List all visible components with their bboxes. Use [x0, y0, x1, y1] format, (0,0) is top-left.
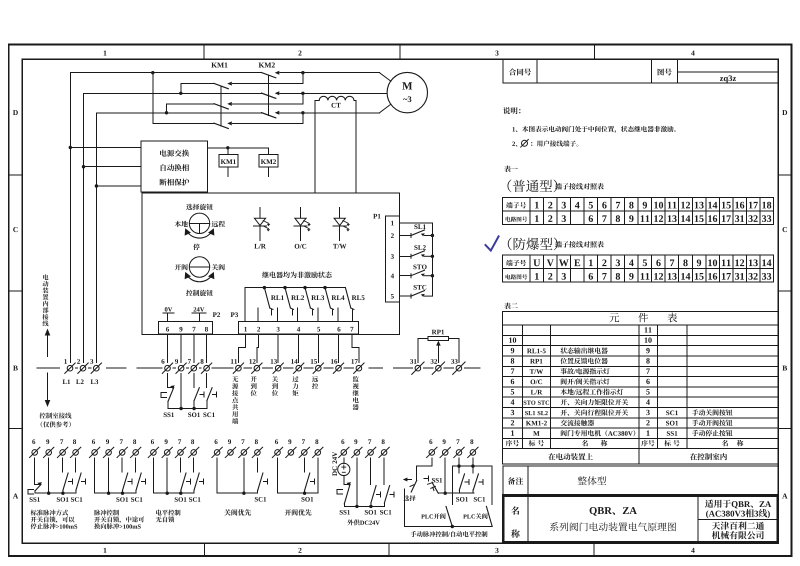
wire motor phase U: [280, 73, 391, 82]
remark box: [503, 466, 779, 495]
terminal 11: [231, 359, 244, 373]
wire branch L2 to KM1 row2: [181, 84, 214, 94]
title block: [503, 496, 778, 543]
heading explosion-proof type: [508, 238, 604, 251]
terminal 16: [331, 359, 344, 373]
relay pin stub wires to P3: [258, 308, 338, 321]
wire P1 pin1 to limit bus: [399, 222, 432, 224]
wire motor phase V: [280, 92, 387, 94]
wire P3 pin3 to terminal 13: [277, 334, 279, 363]
indicator LED T/W (trouble/power): [333, 208, 350, 249]
example 6 open button SO1: [365, 458, 381, 515]
example 7 left rail: [451, 466, 453, 505]
checkmark (blue): [486, 236, 499, 250]
example 3 open button SO1: [175, 458, 191, 502]
example 7 open button SO1: [456, 458, 469, 502]
wire P2 pin9 to terminal 9: [180, 334, 182, 363]
example 7 right rail: [491, 466, 493, 505]
heading normal type: [507, 180, 603, 193]
example 7 wire rail top: [452, 464, 492, 467]
wire P3 pin2 to terminal 12: [257, 334, 259, 363]
terminal 15: [311, 359, 324, 373]
wire P3 pin6 to terminal 16: [338, 334, 340, 363]
wire P2 pin6 to terminal 6: [167, 334, 169, 363]
contactor KM2 main contacts (3 poles): [259, 63, 280, 118]
terminal 9: [175, 359, 186, 373]
limit switch SL1 (open travel): [399, 224, 432, 237]
example 1 wire terminal 9: [48, 458, 50, 493]
terminal 3 (L3): [90, 359, 101, 373]
contactor coil KM2: [259, 154, 278, 176]
labels L1 L2 L3: [63, 379, 99, 384]
label close position (vertical): [272, 376, 278, 396]
contract number / drawing number table: [503, 59, 779, 83]
PLC close contact: [463, 506, 492, 526]
example 3 common wire: [153, 492, 194, 495]
label open position (vertical): [251, 376, 257, 396]
arrow up (internal wiring): [45, 329, 51, 357]
wire P3 pin7 to terminal 17: [352, 334, 359, 363]
torque switch STC (close): [399, 285, 432, 298]
relay contact RL3: [305, 288, 324, 315]
example 4 wire terminal 6: [216, 458, 218, 493]
terminal cross-reference table (normal type): [502, 198, 773, 225]
terminal 33: [451, 359, 465, 374]
label table 1: [504, 166, 518, 173]
notes text: [503, 107, 676, 147]
power exchange / auto phase / phase-loss protection module: [70, 141, 207, 192]
example 4 caption: [224, 509, 251, 515]
terminal 1 (L1): [64, 359, 75, 373]
selector knob (local/remote): [175, 204, 225, 250]
relay contact RL4: [325, 288, 344, 315]
label control room wiring: [40, 413, 72, 428]
potentiometer RP1: [418, 330, 459, 363]
example 2 close button SC1: [131, 458, 146, 502]
button common wire: [168, 407, 207, 410]
example 6 close button SC1: [380, 458, 394, 515]
label passive contact common (vertical): [232, 376, 238, 424]
example 6 wire terminal 9: [356, 458, 358, 507]
label 24V: [192, 307, 206, 321]
limit switch common bus wire: [431, 223, 434, 296]
example 1 stop button SS1: [28, 458, 42, 502]
example group 6 terminals 6 9 7 8: [339, 439, 390, 457]
terminal 17: [351, 359, 364, 373]
wire KM1 row2 to motor node U: [233, 71, 305, 84]
wire L1 phase from terminal 1 to KM contacts: [69, 71, 262, 363]
wire P2 pin8 to terminal 8: [206, 334, 208, 363]
wire P3 pin1 to terminal 11: [238, 334, 245, 363]
torque switch STO (open): [399, 265, 432, 278]
example 2 caption: [94, 510, 144, 530]
component table 元件表: [502, 312, 778, 465]
example 2 open button SO1: [116, 458, 132, 502]
example 2 wire terminal 6: [94, 458, 96, 493]
example 1 open button SO1: [57, 458, 73, 502]
label actuator internal wiring (vertical): [43, 274, 49, 326]
label remote control (vertical): [312, 376, 318, 389]
example 4 common wire: [217, 492, 258, 495]
terminal 6: [161, 359, 172, 373]
example 7 close button SC1: [473, 458, 485, 502]
label monitor relay (vertical): [353, 376, 359, 410]
example group 3 terminals 6 9 7 8: [148, 439, 199, 457]
indicator LED L/R (local/remote): [253, 208, 270, 249]
example 5 wire terminal 6: [277, 458, 279, 493]
example 3 caption: [156, 510, 181, 523]
current transformer CT: [315, 96, 356, 193]
example 5 common wire: [278, 492, 318, 495]
label DC 24V (rotated): [332, 452, 337, 476]
example 6 caption: [347, 519, 379, 525]
relay contact RL1: [264, 288, 283, 315]
label table 2: [504, 303, 518, 310]
terminal 12: [249, 359, 262, 373]
selector switch (manual/auto): [403, 476, 429, 526]
pushbutton SC1 (close, NO): [203, 374, 216, 417]
relay output bus wire: [245, 286, 345, 321]
label 0V: [163, 307, 174, 321]
relay contact RL5: [345, 288, 364, 322]
example 5 wire terminal 8: [317, 458, 319, 493]
wire L3 phase from terminal 3 to KM contacts: [95, 111, 262, 363]
wire L2 phase from terminal 2 to KM contacts: [82, 92, 262, 363]
terminal 32: [431, 359, 445, 374]
example 7 manual bus: [438, 492, 474, 495]
example 1 close button SC1: [71, 458, 86, 502]
example 7 stop button SS1: [428, 478, 443, 493]
example group 4 terminals 6 9 7 8: [212, 439, 263, 457]
wire P3 pin4 to terminal 14: [298, 334, 300, 363]
terminal 14: [291, 359, 304, 373]
example group 5 terminals 6 9 7 8: [272, 439, 323, 457]
note: relays shown non-energized: [262, 272, 332, 279]
example 1 caption: [31, 510, 78, 530]
terminal 2 (L2): [77, 359, 88, 373]
example group 1 terminals 6 9 7 8: [30, 439, 81, 457]
example group 7 terminals 6 9 7 8: [427, 439, 479, 457]
wire protection module to contactor coils: [208, 146, 269, 154]
connector P1: [373, 214, 399, 302]
example 4 wire terminal 7: [243, 458, 245, 493]
example 3 close button SC1: [189, 458, 204, 502]
example 3 wire terminal 9: [166, 458, 168, 493]
control unit enclosure: [142, 193, 400, 335]
example 4 close button SC1: [255, 458, 268, 502]
connector P2: [158, 312, 220, 333]
terminal 31: [410, 359, 424, 374]
wire P2 pin7 to terminal 7: [193, 334, 195, 363]
terminal 8: [201, 359, 212, 373]
terminal cross-reference table (explosion-proof): [502, 255, 773, 282]
arrow down (control room wiring): [45, 373, 51, 407]
example 7 caption: [410, 531, 487, 537]
limit switch SL2 (close travel): [399, 245, 432, 258]
contactor KM1 main contacts (3 poles): [211, 63, 231, 129]
example 5 caption: [285, 509, 312, 515]
terminal 13: [271, 359, 284, 373]
indicator LED O/C (open/close): [294, 208, 311, 249]
control knob (open/close): [175, 257, 225, 296]
connector P3: [231, 312, 359, 333]
example 7 wire terminal 9: [444, 458, 446, 493]
wire KM1 row4 to motor node V: [233, 92, 305, 104]
wire branch L1 to KM1 row6: [153, 73, 214, 124]
example 6 stop button SS1: [337, 482, 351, 514]
wire P3 pin5 to terminal 15: [317, 334, 319, 363]
relay contact RL2: [285, 288, 304, 315]
battery source DC24V: [338, 458, 350, 485]
example 1 common wire: [35, 492, 76, 495]
example 7 wire terminal 6 to selector: [417, 458, 432, 481]
example 6 common wire: [344, 505, 384, 508]
wire branch L3 to KM1 row4: [167, 104, 215, 113]
pushbutton SS1 (stop, NC): [161, 374, 175, 417]
example 5 open button SO1: [301, 458, 314, 502]
PLC open contact: [421, 506, 452, 526]
example 3 wire terminal 6: [152, 458, 154, 493]
example group 2 terminals 6 9 7 8: [89, 439, 140, 457]
wire terminal 9 to button common: [180, 374, 182, 409]
terminal 7: [188, 359, 199, 373]
motor M ~3: [387, 72, 427, 112]
wire motor phase W: [280, 104, 391, 113]
contactor coil KM1: [219, 154, 238, 176]
example 2 common wire: [95, 492, 136, 495]
pushbutton SO1 (open, NO): [188, 374, 204, 417]
wire KM1 row6 to motor node W: [233, 111, 305, 123]
example 7 bottom wire: [405, 525, 493, 528]
label over torque (vertical): [292, 376, 298, 396]
example 2 wire terminal 9: [108, 458, 110, 493]
terminal strip line (actuator boundary): [37, 367, 480, 369]
